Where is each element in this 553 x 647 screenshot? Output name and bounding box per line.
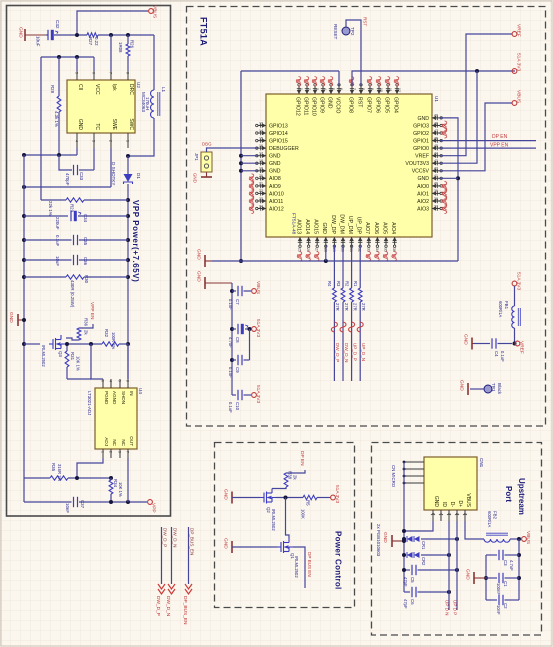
capacitor C5 47pF bbox=[404, 569, 410, 571]
svg-text:DP BUS EN: DP BUS EN bbox=[307, 552, 312, 577]
U1 top pins bbox=[298, 86, 300, 94]
svg-text:DRC: DRC bbox=[128, 84, 134, 95]
wire CN1 GND bbox=[404, 521, 433, 531]
svg-text:Black: Black bbox=[497, 383, 502, 395]
svg-text:VCC5V: VCC5V bbox=[412, 169, 430, 175]
CN1 shield pins bbox=[404, 461, 424, 463]
svg-text:R32: R32 bbox=[104, 329, 109, 338]
svg-text:R4: R4 bbox=[327, 281, 332, 287]
resistor R29 22k bbox=[41, 199, 66, 201]
svg-text:GND: GND bbox=[382, 532, 388, 543]
svg-text:VBUS: VBUS bbox=[152, 5, 158, 18]
svg-text:VREF: VREF bbox=[516, 24, 522, 37]
svg-text:4.7uF: 4.7uF bbox=[228, 337, 233, 348]
svg-text:C32: C32 bbox=[55, 20, 60, 29]
svg-text:GND: GND bbox=[8, 312, 14, 323]
svg-text:220uF: 220uF bbox=[55, 217, 60, 230]
svg-text:GND: GND bbox=[18, 27, 24, 38]
svg-text:GND: GND bbox=[321, 222, 327, 234]
inductor L1 bbox=[151, 90, 154, 118]
svg-text:R30: R30 bbox=[84, 275, 89, 284]
VPP terminal bbox=[148, 500, 153, 505]
svg-text:2: 2 bbox=[109, 140, 113, 142]
VBUS terminal bbox=[512, 101, 517, 106]
svg-text:GPIO3: GPIO3 bbox=[413, 123, 429, 129]
svg-text:47pF: 47pF bbox=[403, 599, 408, 609]
svg-text:GPIO12: GPIO12 bbox=[294, 97, 300, 116]
capacitor C10 bbox=[232, 394, 236, 396]
svg-text:10K 1%: 10K 1% bbox=[76, 356, 81, 371]
svg-text:DP EN: DP EN bbox=[492, 134, 508, 140]
svg-text:40: 40 bbox=[434, 182, 438, 186]
svg-text:51A 3V3: 51A 3V3 bbox=[255, 385, 261, 403]
svg-text:10nF: 10nF bbox=[496, 605, 501, 615]
svg-text:VREF: VREF bbox=[519, 341, 525, 354]
svg-text:7: 7 bbox=[352, 88, 356, 90]
ground bbox=[467, 383, 469, 395]
svg-text:C36: C36 bbox=[83, 257, 88, 266]
U4 pins top bbox=[102, 379, 104, 388]
net VPP_EN bbox=[440, 147, 536, 149]
transistor Q2 IRLML2502 bbox=[260, 489, 276, 504]
svg-text:DW_D_P: DW_D_P bbox=[155, 596, 161, 616]
net DP_EN bbox=[440, 140, 536, 142]
svg-text:27: 27 bbox=[315, 248, 319, 252]
svg-text:CII: CII bbox=[77, 84, 83, 90]
svg-text:GPIO8: GPIO8 bbox=[347, 97, 353, 113]
capacitor C34 220uF bbox=[24, 215, 68, 217]
svg-text:10K 1%: 10K 1% bbox=[118, 482, 123, 497]
svg-text:VPP Power(+7.65V): VPP Power(+7.65V) bbox=[131, 200, 140, 282]
svg-text:GPIO7: GPIO7 bbox=[365, 97, 371, 113]
node Q3 drain bbox=[66, 343, 102, 345]
VREF terminal bottom bbox=[515, 341, 520, 346]
svg-text:25: 25 bbox=[298, 248, 302, 252]
resistor R27 bbox=[87, 33, 98, 37]
wire VBUS pin bbox=[465, 521, 484, 539]
svg-text:GND: GND bbox=[77, 119, 83, 131]
sheet entry chevrons bbox=[158, 584, 165, 594]
svg-text:0.1uF: 0.1uF bbox=[228, 299, 233, 310]
svg-text:U4: U4 bbox=[138, 388, 143, 394]
svg-text:DBG: DBG bbox=[202, 142, 212, 147]
svg-text:3: 3 bbox=[447, 513, 451, 515]
U1 bottom pins bbox=[299, 237, 301, 245]
wire to U4 bbox=[91, 344, 103, 379]
svg-text:4: 4 bbox=[75, 140, 79, 142]
svg-text:R34: R34 bbox=[113, 479, 118, 488]
svg-text:Q3: Q3 bbox=[58, 351, 63, 357]
svg-text:TP1: TP1 bbox=[491, 383, 496, 392]
svg-text:CR1: CR1 bbox=[421, 541, 426, 550]
diode D1 SHOTKY bbox=[127, 156, 129, 174]
svg-text:IRLML2502: IRLML2502 bbox=[294, 556, 299, 578]
svg-text:GND: GND bbox=[465, 569, 471, 580]
U2 pins bottom bbox=[76, 133, 78, 148]
VREF terminal bbox=[512, 32, 517, 37]
svg-text:AGND: AGND bbox=[112, 391, 117, 405]
svg-text:UP_D_P: UP_D_P bbox=[352, 343, 357, 361]
svg-text:DP EN: DP EN bbox=[299, 451, 305, 466]
svg-text:2: 2 bbox=[109, 451, 113, 453]
svg-text:AIO4: AIO4 bbox=[390, 222, 396, 234]
resistor R34 10K bbox=[109, 480, 113, 494]
svg-text:RESET: RESET bbox=[333, 24, 338, 40]
svg-text:11: 11 bbox=[388, 88, 392, 92]
decoupling bus bbox=[231, 283, 233, 395]
svg-text:14: 14 bbox=[259, 129, 263, 133]
CN1 pins bottom bbox=[432, 510, 434, 521]
svg-text:3: 3 bbox=[92, 140, 96, 142]
svg-text:VCC: VCC bbox=[94, 84, 100, 95]
svg-text:GND: GND bbox=[196, 271, 202, 282]
svg-text:MC34063: MC34063 bbox=[141, 92, 146, 112]
svg-text:C7: C7 bbox=[235, 299, 240, 305]
capacitor C3 4.7uF bbox=[486, 554, 497, 556]
ground bbox=[231, 541, 233, 553]
svg-text:GPIO2: GPIO2 bbox=[413, 131, 429, 137]
ground bbox=[204, 277, 206, 289]
svg-text:39: 39 bbox=[434, 189, 438, 193]
capacitor C33 bbox=[59, 155, 72, 170]
svg-text:GPIO5: GPIO5 bbox=[383, 97, 389, 113]
svg-text:RST: RST bbox=[356, 97, 362, 108]
svg-text:7: 7 bbox=[109, 72, 113, 74]
svg-text:600R/1A: 600R/1A bbox=[487, 511, 492, 528]
GND bus vertical bbox=[240, 71, 242, 261]
VBUS filter rails bbox=[518, 539, 520, 600]
svg-text:U1: U1 bbox=[434, 96, 439, 102]
svg-text:6: 6 bbox=[92, 72, 96, 74]
svg-text:PGND: PGND bbox=[104, 391, 109, 405]
svg-text:2k: 2k bbox=[293, 475, 298, 480]
svg-text:GND: GND bbox=[326, 97, 332, 109]
wire 3V3 to VOUT3V3 bbox=[440, 71, 477, 163]
wire L1 to SWC bbox=[128, 118, 154, 156]
svg-text:C6: C6 bbox=[410, 599, 415, 605]
svg-text:18: 18 bbox=[259, 159, 263, 163]
svg-text:AIO13: AIO13 bbox=[295, 219, 301, 234]
svg-text:DW_D_N: DW_D_N bbox=[165, 596, 171, 617]
op-amp U2 body bbox=[67, 80, 135, 133]
ground bbox=[206, 172, 208, 177]
capacitor C36 10uF bbox=[24, 259, 72, 261]
svg-text:JP1: JP1 bbox=[194, 153, 199, 161]
no-ERC marks right pins bbox=[442, 121, 447, 131]
svg-text:C1: C1 bbox=[503, 581, 508, 587]
wire row TC bbox=[24, 154, 77, 156]
wire UP_D_P bbox=[456, 521, 458, 610]
svg-text:100R 1%: 100R 1% bbox=[111, 332, 116, 350]
svg-text:5: 5 bbox=[118, 380, 122, 382]
svg-text:0.22: 0.22 bbox=[94, 37, 99, 46]
svg-text:16: 16 bbox=[259, 144, 263, 148]
svg-text:VPP: VPP bbox=[151, 503, 157, 513]
resistor R38 2k bbox=[284, 473, 288, 487]
net DW_D_N wire bbox=[171, 527, 173, 584]
svg-text:43: 43 bbox=[434, 159, 438, 163]
svg-text:5: 5 bbox=[431, 513, 435, 515]
svg-text:10nF: 10nF bbox=[65, 503, 70, 513]
svg-text:27R: 27R bbox=[335, 303, 340, 311]
svg-text:1: 1 bbox=[463, 513, 467, 515]
wire UP_D_N bbox=[448, 521, 450, 610]
svg-text:NC: NC bbox=[121, 439, 126, 446]
USB data resistors R4 R3 R2 R1 bbox=[333, 245, 335, 288]
ground bbox=[17, 314, 19, 326]
svg-text:15: 15 bbox=[259, 136, 263, 140]
svg-text:Port: Port bbox=[504, 486, 513, 502]
svg-text:C37: C37 bbox=[80, 500, 85, 509]
svg-text:2: 2 bbox=[455, 513, 459, 515]
svg-text:D-: D- bbox=[449, 502, 455, 508]
ground bbox=[24, 29, 26, 41]
svg-text:51A 3V3: 51A 3V3 bbox=[255, 319, 261, 337]
svg-text:VPP EN: VPP EN bbox=[490, 143, 509, 149]
svg-text:GND: GND bbox=[223, 538, 229, 549]
svg-text:AIO0: AIO0 bbox=[417, 184, 429, 190]
capacitor C2 10nF bbox=[486, 599, 497, 601]
svg-text:2x PGB1010603: 2x PGB1010603 bbox=[376, 524, 381, 557]
svg-text:7: 7 bbox=[126, 451, 130, 453]
svg-text:3: 3 bbox=[118, 451, 122, 453]
svg-text:AIO3: AIO3 bbox=[417, 206, 429, 212]
svg-text:AIO14: AIO14 bbox=[304, 219, 310, 234]
svg-text:47: 47 bbox=[434, 129, 438, 133]
svg-text:GPIO9: GPIO9 bbox=[318, 97, 324, 113]
51A_3V3 terminal right bbox=[512, 281, 517, 286]
testpoint TP1 bbox=[484, 385, 492, 393]
svg-text:C10: C10 bbox=[235, 402, 240, 411]
svg-text:AIO15: AIO15 bbox=[313, 219, 319, 234]
svg-text:6: 6 bbox=[101, 380, 105, 382]
svg-text:44: 44 bbox=[434, 152, 438, 156]
svg-text:IRLML2502: IRLML2502 bbox=[271, 509, 276, 531]
svg-text:AIO7: AIO7 bbox=[364, 222, 370, 234]
svg-text:FB2: FB2 bbox=[493, 511, 498, 520]
svg-text:ADJ: ADJ bbox=[104, 437, 109, 446]
GND bus left bbox=[23, 155, 25, 502]
svg-text:CN1: CN1 bbox=[479, 458, 484, 468]
capacitor C32 bbox=[46, 34, 48, 36]
VPP rail bbox=[127, 200, 129, 379]
svg-text:D SHOTKY: D SHOTKY bbox=[111, 162, 116, 185]
svg-text:AIO12: AIO12 bbox=[269, 206, 284, 212]
connector CN1 body bbox=[424, 457, 477, 510]
svg-text:38: 38 bbox=[434, 197, 438, 201]
resistor R36 2k bbox=[77, 328, 81, 340]
svg-text:24: 24 bbox=[259, 204, 263, 208]
wire OUT bbox=[127, 458, 129, 502]
connector JP1 bbox=[201, 152, 212, 172]
svg-text:U2: U2 bbox=[136, 82, 141, 88]
svg-text:600R/1A: 600R/1A bbox=[498, 301, 503, 318]
svg-text:GPIO11: GPIO11 bbox=[302, 97, 308, 115]
wire 3V3 top bbox=[352, 71, 515, 86]
svg-text:20: 20 bbox=[259, 174, 263, 178]
capacitor C6 47pF bbox=[404, 591, 410, 593]
resistor R35 316R bbox=[24, 477, 50, 479]
svg-text:17: 17 bbox=[259, 152, 263, 156]
svg-text:R5: R5 bbox=[306, 500, 311, 506]
svg-text:Ipk: Ipk bbox=[111, 84, 117, 91]
svg-text:45: 45 bbox=[434, 144, 438, 148]
wire to VBUS bbox=[77, 11, 148, 35]
svg-text:Upstream: Upstream bbox=[517, 478, 526, 515]
svg-text:C33: C33 bbox=[79, 172, 84, 181]
svg-text:AIO10: AIO10 bbox=[269, 191, 284, 197]
net DW_D_P wire bbox=[161, 527, 163, 584]
svg-text:36: 36 bbox=[392, 248, 396, 252]
svg-text:VBUS: VBUS bbox=[516, 90, 522, 103]
capacitor C8 bbox=[232, 328, 236, 330]
svg-text:R38: R38 bbox=[288, 471, 293, 480]
svg-text:316R 1%: 316R 1% bbox=[57, 464, 62, 482]
svg-text:C5: C5 bbox=[410, 577, 415, 583]
svg-text:DW_D_N: DW_D_N bbox=[344, 343, 349, 362]
ground bbox=[231, 492, 233, 504]
svg-text:TC: TC bbox=[94, 123, 100, 130]
svg-text:5: 5 bbox=[331, 88, 335, 90]
U1 right pins bbox=[432, 117, 440, 119]
wire to Q1 gate bbox=[286, 498, 290, 539]
svg-text:48: 48 bbox=[434, 121, 438, 125]
no-ERC marks top pins bbox=[296, 77, 301, 87]
svg-text:0.1uF: 0.1uF bbox=[228, 367, 233, 378]
svg-text:Power Control: Power Control bbox=[334, 531, 343, 590]
ferrite bead FB1 bbox=[514, 286, 516, 306]
svg-text:VBUS: VBUS bbox=[525, 531, 531, 544]
svg-text:51A 3V3: 51A 3V3 bbox=[516, 53, 522, 71]
svg-text:51A 3V3: 51A 3V3 bbox=[516, 272, 522, 290]
svg-text:C3: C3 bbox=[503, 560, 508, 566]
svg-text:R35: R35 bbox=[51, 463, 56, 472]
svg-text:100K: 100K bbox=[301, 509, 306, 519]
svg-text:DP_BUS_EN: DP_BUS_EN bbox=[190, 528, 195, 555]
svg-text:GND: GND bbox=[193, 173, 198, 183]
diode CR1 bbox=[404, 538, 406, 540]
svg-text:R28: R28 bbox=[50, 85, 55, 94]
svg-text:26: 26 bbox=[306, 248, 310, 252]
svg-text:DW_DM: DW_DM bbox=[338, 214, 344, 234]
svg-text:AIO5: AIO5 bbox=[381, 222, 387, 234]
svg-text:430R (0.25W): 430R (0.25W) bbox=[70, 280, 75, 308]
svg-text:8: 8 bbox=[361, 88, 365, 90]
svg-text:5: 5 bbox=[75, 72, 79, 74]
svg-text:GND: GND bbox=[417, 176, 429, 182]
svg-text:UP_DM: UP_DM bbox=[347, 216, 353, 234]
svg-text:TP2: TP2 bbox=[350, 27, 355, 36]
capacitor C35 0.1uF bbox=[24, 239, 72, 241]
svg-text:GND: GND bbox=[223, 489, 229, 500]
svg-text:DW_D_P: DW_D_P bbox=[163, 528, 168, 547]
svg-text:C35: C35 bbox=[83, 237, 88, 246]
svg-text:2k: 2k bbox=[84, 330, 89, 335]
resistor R31 10K bbox=[66, 344, 68, 351]
svg-text:33: 33 bbox=[366, 248, 370, 252]
svg-text:4: 4 bbox=[323, 88, 327, 90]
svg-text:GPIO14: GPIO14 bbox=[269, 131, 288, 137]
section box: Upstream Port bbox=[372, 443, 542, 636]
GND rail bbox=[212, 260, 458, 262]
ground bbox=[204, 255, 206, 267]
section box: FT51A bbox=[187, 7, 546, 427]
capacitor C9 bbox=[249, 329, 251, 360]
svg-text:Q2: Q2 bbox=[266, 507, 271, 513]
svg-text:19: 19 bbox=[259, 167, 263, 171]
svg-text:1: 1 bbox=[126, 140, 130, 142]
ground bbox=[391, 535, 393, 547]
svg-text:DW_D_P: DW_D_P bbox=[335, 343, 340, 362]
svg-text:D+: D+ bbox=[457, 500, 463, 507]
svg-text:VBUS: VBUS bbox=[465, 493, 471, 507]
svg-text:41: 41 bbox=[434, 174, 438, 178]
svg-text:VREF: VREF bbox=[415, 154, 429, 160]
ferrite bead FB2 bbox=[484, 539, 510, 542]
svg-text:UP_D_N: UP_D_N bbox=[361, 343, 366, 361]
svg-text:GPIO10: GPIO10 bbox=[310, 97, 316, 116]
svg-text:1: 1 bbox=[299, 88, 303, 90]
VBUS terminal bbox=[149, 9, 154, 14]
section box: VPP power supply bbox=[7, 6, 171, 517]
svg-text:4.3k 1%: 4.3k 1% bbox=[54, 111, 59, 127]
svg-text:FB1: FB1 bbox=[504, 301, 509, 310]
svg-text:C9: C9 bbox=[235, 367, 240, 373]
svg-text:IN: IN bbox=[129, 391, 134, 396]
svg-text:23: 23 bbox=[259, 197, 263, 201]
svg-text:R2: R2 bbox=[344, 281, 349, 287]
svg-text:DW_DP: DW_DP bbox=[330, 215, 336, 234]
svg-text:DEBUGGER: DEBUGGER bbox=[269, 146, 299, 152]
svg-text:AIO11: AIO11 bbox=[269, 199, 283, 205]
svg-text:VCCIO: VCCIO bbox=[334, 97, 340, 113]
svg-text:CN MICRO: CN MICRO bbox=[391, 465, 396, 488]
capacitor C7 bbox=[232, 290, 236, 292]
svg-text:12: 12 bbox=[397, 88, 401, 92]
testpoint TP2 bbox=[342, 27, 350, 35]
svg-text:46: 46 bbox=[434, 136, 438, 140]
diode CR2 bbox=[404, 554, 406, 556]
svg-text:1R08: 1R08 bbox=[118, 42, 123, 53]
svg-text:DW_D_N: DW_D_N bbox=[173, 528, 178, 547]
svg-text:UP D N: UP D N bbox=[445, 600, 450, 616]
svg-text:SHDN: SHDN bbox=[121, 391, 126, 404]
svg-text:10uF: 10uF bbox=[55, 256, 60, 266]
svg-text:100nF: 100nF bbox=[496, 583, 501, 595]
svg-text:VPP EN: VPP EN bbox=[89, 302, 95, 320]
51A_3V3 terminal bbox=[252, 393, 257, 398]
wire VCCIO bbox=[241, 70, 339, 72]
svg-text:UP_DP: UP_DP bbox=[356, 217, 362, 235]
svg-text:NC: NC bbox=[112, 439, 117, 446]
svg-text:DP_BUS_EN: DP_BUS_EN bbox=[182, 596, 188, 625]
svg-text:27R: 27R bbox=[344, 303, 349, 311]
svg-text:R36: R36 bbox=[84, 318, 89, 327]
svg-text:C4: C4 bbox=[494, 351, 499, 357]
51A_3V3 terminal bbox=[512, 69, 517, 74]
svg-text:27R: 27R bbox=[361, 303, 366, 311]
resistor R26 bbox=[127, 35, 129, 44]
svg-text:SWE: SWE bbox=[111, 119, 117, 131]
MCU U1 FT51A body bbox=[266, 94, 432, 237]
svg-text:GPIO0: GPIO0 bbox=[413, 146, 429, 152]
wire IN pin bbox=[127, 344, 129, 379]
svg-text:8: 8 bbox=[126, 72, 130, 74]
svg-text:GPIO15: GPIO15 bbox=[269, 139, 288, 145]
net DP_BUS_EN wire bbox=[293, 547, 305, 588]
svg-text:GND: GND bbox=[269, 169, 281, 175]
svg-text:2: 2 bbox=[307, 88, 311, 90]
